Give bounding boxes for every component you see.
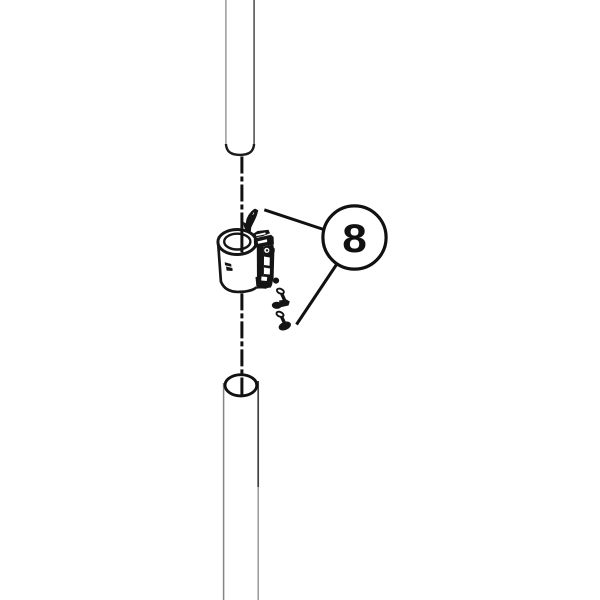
clamp window 2 [264, 268, 270, 275]
screw 1 ring [276, 288, 285, 295]
centerline upper segment [240, 157, 243, 253]
bottom tube opening ellipse [225, 375, 257, 396]
screw 1 head [272, 302, 282, 309]
left tab upper [225, 262, 232, 267]
wing nut tip flag [252, 209, 259, 217]
clamp bottom notch [261, 277, 267, 282]
bottom tube left edge [223, 383, 225, 600]
clamp hinge band 2 [254, 235, 274, 248]
wing nut lower stroke [243, 222, 250, 232]
clamp hinge top cap [252, 230, 270, 238]
callout label 8 [342, 216, 367, 260]
clamp right bump [271, 248, 275, 253]
left tab lower [226, 267, 233, 272]
clamp hinge cap slit [256, 232, 266, 236]
bottom tube right edge upper [257, 381, 259, 487]
clamp window 1 [264, 257, 270, 266]
centerline through bottom ellipse [240, 378, 243, 397]
clamp hinge band slit [258, 239, 268, 244]
screw 2 head [277, 320, 292, 332]
clamp screw rail [257, 246, 264, 289]
clamp bottom band [256, 276, 274, 289]
clamp cylinder body outline [218, 244, 256, 292]
screw 2 ring [276, 311, 285, 318]
clamp cylinder body fill [218, 244, 256, 292]
svg-text:8: 8 [342, 216, 367, 260]
centerline across clamp ellipses [240, 229, 243, 253]
clamp outer top ellipse [218, 230, 256, 255]
clamp inner top ellipse [224, 234, 250, 250]
wing nut pin body [245, 209, 258, 232]
leader line to clamp [264, 210, 323, 230]
clamp rail right plate [263, 245, 274, 289]
wing nut tip slit [253, 213, 254, 215]
clamp bottom-right ball [273, 278, 279, 284]
leader line to screws [297, 264, 338, 325]
screw 2 shaft [281, 316, 284, 322]
centerline lower segment [240, 293, 243, 378]
callout circle 8 [323, 206, 386, 269]
top tube left edge [225, 0, 227, 145]
screw 1 shaft [282, 293, 286, 301]
top tube right edge [253, 0, 255, 145]
top tube rounded bottom [226, 144, 254, 155]
bottom tube right edge lower [257, 487, 259, 600]
clamp screw head circle [264, 248, 269, 253]
